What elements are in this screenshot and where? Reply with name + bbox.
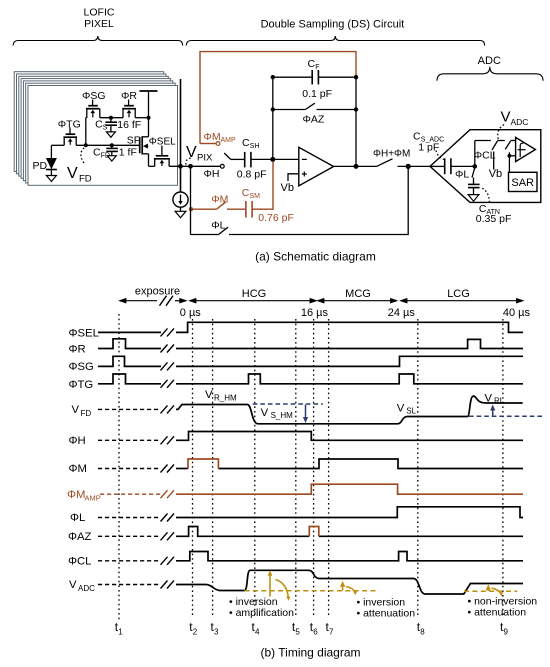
comparator input top wire bbox=[475, 140, 491, 142]
red switch PhiM wire bbox=[191, 208, 217, 210]
break PhiM_AMP red bbox=[161, 490, 175, 498]
ADC pentagon bbox=[430, 130, 541, 203]
svg-text:SM: SM bbox=[250, 193, 261, 200]
switch PhiAZ wire left bbox=[273, 109, 306, 111]
svg-text:Double Sampling (DS) Circuit: Double Sampling (DS) Circuit bbox=[261, 19, 405, 31]
svg-text:V: V bbox=[72, 404, 80, 416]
svg-text:S_HM: S_HM bbox=[271, 411, 294, 420]
switch PhiAZ lever bbox=[305, 103, 315, 109]
gridline t1 bbox=[118, 314, 120, 622]
svg-text:(b) Timing diagram: (b) Timing diagram bbox=[260, 646, 360, 660]
svg-text:V: V bbox=[501, 109, 511, 126]
svg-text:ΦH: ΦH bbox=[69, 435, 86, 447]
waveform PhiL bbox=[176, 507, 523, 518]
svg-text:V: V bbox=[205, 389, 213, 401]
CF top wire bbox=[273, 76, 312, 78]
svg-text:SH: SH bbox=[250, 143, 260, 150]
opamp output wire bbox=[334, 165, 377, 167]
dotted arc VPIX to node bbox=[186, 158, 191, 165]
svg-text:16 fF: 16 fF bbox=[117, 119, 141, 131]
ground under CS bbox=[106, 132, 115, 137]
break PhiSEL bbox=[161, 328, 175, 336]
svg-text:0.8 pF: 0.8 pF bbox=[237, 168, 267, 180]
brace ADC bbox=[437, 67, 543, 81]
svg-text:PIX: PIX bbox=[197, 152, 213, 163]
svg-text:ΦAZ: ΦAZ bbox=[68, 531, 92, 543]
break PhiM bbox=[161, 465, 175, 473]
PhiL return wire bbox=[229, 166, 408, 234]
switch PhiL lever bbox=[219, 227, 229, 234]
waveform PhiM dashed bbox=[98, 468, 161, 470]
exposure arrow bbox=[120, 299, 186, 303]
red net MAMP top wire bbox=[200, 52, 356, 144]
svg-text:ΦCL: ΦCL bbox=[68, 556, 91, 568]
junction dot CF left bbox=[271, 75, 275, 79]
svg-text:V: V bbox=[69, 579, 77, 591]
svg-text:ΦL: ΦL bbox=[455, 168, 469, 180]
break PhiTG bbox=[161, 380, 175, 388]
svg-text:FD: FD bbox=[81, 409, 92, 418]
brace LOFIC PIXEL bbox=[13, 36, 183, 46]
junction dot VPIX bbox=[188, 164, 193, 169]
svg-text:C: C bbox=[242, 137, 250, 149]
ground under CATN bbox=[468, 195, 479, 202]
wire CSH to summing node bbox=[251, 158, 273, 160]
waveform PhiSG bbox=[98, 356, 523, 366]
svg-text:ADC: ADC bbox=[478, 55, 501, 67]
junction dot output bbox=[354, 164, 359, 169]
capacitor CATN bbox=[468, 184, 480, 194]
pixel array stacked frames bbox=[14, 72, 177, 186]
waveform PhiH bbox=[176, 432, 523, 441]
svg-text:C: C bbox=[242, 187, 250, 199]
break PhiAZ bbox=[161, 532, 175, 540]
junction dot R-VDD bbox=[147, 116, 151, 120]
waveform PhiAZ red pulse bbox=[309, 527, 319, 537]
transistor R bbox=[122, 100, 136, 118]
wire dot to comparator bbox=[509, 155, 515, 157]
dotted arc CATN bbox=[481, 188, 490, 203]
blue dashed VSL level bbox=[469, 415, 544, 417]
capacitor CSADC bbox=[445, 158, 451, 174]
waveform PhiAZ dashed bbox=[98, 535, 161, 537]
svg-text:F: F bbox=[315, 64, 319, 71]
gridline t6 bbox=[313, 319, 315, 618]
svg-text:HCG: HCG bbox=[242, 288, 266, 300]
svg-text:6: 6 bbox=[313, 628, 318, 637]
svg-text:16 µs: 16 µs bbox=[301, 307, 329, 319]
svg-text:V: V bbox=[186, 144, 197, 161]
svg-text:Vb: Vb bbox=[281, 182, 294, 194]
svg-text:V: V bbox=[397, 402, 405, 414]
wire summing node to opamp bbox=[273, 158, 299, 160]
exposure break bbox=[160, 296, 174, 306]
svg-text:ΦSG: ΦSG bbox=[82, 90, 106, 102]
svg-text:PIXEL: PIXEL bbox=[84, 18, 114, 30]
stub and dot comparator lower input bbox=[508, 152, 510, 157]
wire CSADC to inner node bbox=[451, 165, 475, 167]
gridline t9 bbox=[502, 319, 504, 618]
red junction dot M tap bbox=[189, 207, 193, 211]
current source bbox=[173, 192, 188, 211]
svg-text:ΦM: ΦM bbox=[211, 194, 228, 206]
junction dot FD-CFD bbox=[110, 143, 114, 147]
SAR box bbox=[509, 172, 538, 191]
waveform VFD baseline dashed bbox=[98, 408, 161, 410]
wire to comparator bbox=[511, 140, 516, 142]
svg-text:ΦM: ΦM bbox=[204, 131, 221, 143]
svg-text:V: V bbox=[261, 407, 269, 419]
waveform PhiL dashed bbox=[98, 517, 161, 519]
waveform PhiR bbox=[98, 339, 523, 349]
break PhiH bbox=[161, 436, 175, 444]
transistor SEL bbox=[154, 146, 170, 167]
red wire MAMP stub bbox=[200, 143, 216, 145]
red switch PhiM lever bbox=[217, 202, 226, 210]
svg-text:ADC: ADC bbox=[511, 117, 529, 127]
wire R drain to VDD bbox=[135, 117, 148, 119]
svg-text:V: V bbox=[485, 392, 493, 404]
svg-text:exposure: exposure bbox=[135, 286, 180, 298]
blue arrow up VRL bbox=[490, 405, 495, 416]
svg-text:Vb: Vb bbox=[489, 168, 502, 180]
waveform PhiM_AMP red bbox=[176, 484, 523, 494]
junction dot AZ left bbox=[271, 107, 275, 111]
dotted arc VFD to FD node bbox=[81, 148, 85, 164]
wire SG-R node bbox=[100, 117, 123, 119]
svg-text:ΦM: ΦM bbox=[69, 463, 87, 475]
switch H+M lever bbox=[377, 159, 393, 167]
wire SF source to SEL bbox=[149, 165, 155, 167]
svg-text:R_HM: R_HM bbox=[214, 393, 237, 402]
svg-text:2: 2 bbox=[193, 628, 198, 637]
svg-text:FD: FD bbox=[101, 152, 110, 159]
break PhiR bbox=[161, 345, 175, 353]
svg-text:AMP: AMP bbox=[221, 137, 237, 144]
svg-text:1: 1 bbox=[118, 628, 123, 637]
waveform VADC bbox=[176, 570, 523, 594]
svg-text:C: C bbox=[308, 58, 316, 70]
break VFD bbox=[161, 405, 175, 413]
transistor TG bbox=[63, 128, 77, 146]
transistor SF bbox=[140, 136, 149, 166]
red wire CSM return bbox=[252, 162, 273, 210]
svg-text:• attenuation: • attenuation bbox=[468, 606, 527, 618]
svg-text:ΦAZ: ΦAZ bbox=[303, 113, 325, 125]
svg-text:ΦSEL: ΦSEL bbox=[69, 328, 99, 340]
op-amp U1 bbox=[299, 147, 334, 186]
svg-text:ΦH: ΦH bbox=[204, 168, 220, 180]
svg-text:ΦSG: ΦSG bbox=[69, 361, 94, 373]
junction dot ADC node bbox=[406, 164, 411, 169]
svg-text:8: 8 bbox=[420, 628, 425, 637]
orange dashed reference right bbox=[464, 590, 517, 592]
svg-text:PD: PD bbox=[33, 160, 48, 172]
orange arrow 2 bbox=[340, 581, 357, 595]
svg-text:24 µs: 24 µs bbox=[388, 307, 416, 319]
waveform PhiTG bbox=[98, 374, 523, 384]
svg-text:3: 3 bbox=[214, 628, 219, 637]
wire lever to CSH bbox=[231, 158, 244, 160]
gridline t3 bbox=[212, 319, 214, 618]
opamp minus bbox=[302, 158, 307, 160]
capacitor CSH bbox=[245, 152, 251, 168]
break PhiCL bbox=[161, 557, 175, 565]
svg-text:4: 4 bbox=[255, 628, 260, 637]
ground under CFD bbox=[107, 156, 116, 161]
feedback right vertical bbox=[355, 77, 357, 166]
column line bbox=[180, 79, 182, 192]
waveform PhiH dashed bbox=[98, 439, 161, 441]
capacitor CS bbox=[105, 118, 117, 132]
svg-text:RL: RL bbox=[494, 397, 505, 406]
svg-text:ΦTG: ΦTG bbox=[69, 379, 94, 391]
stub to CATN bbox=[473, 178, 475, 184]
switch contact MAMP circle bbox=[216, 142, 220, 146]
Vb wire opamp bbox=[288, 174, 299, 181]
junction dot FD-SG bbox=[84, 143, 88, 147]
switch PhiAZ wire right bbox=[317, 109, 357, 111]
svg-text:ADC: ADC bbox=[78, 584, 95, 593]
MCG arrow bbox=[318, 299, 397, 303]
waveform PhiAZ bbox=[176, 527, 523, 537]
junction dot CS tap bbox=[109, 116, 113, 120]
svg-text:ΦL: ΦL bbox=[211, 219, 225, 231]
wire SEL to VPIX bbox=[169, 165, 222, 167]
gridline t8 bbox=[417, 319, 419, 618]
junction dot column bbox=[178, 164, 183, 169]
svg-text:ΦR: ΦR bbox=[69, 343, 86, 355]
svg-text:• attenuation: • attenuation bbox=[357, 608, 416, 620]
orange arrow 3 bbox=[486, 584, 503, 596]
svg-text:1 fF: 1 fF bbox=[119, 146, 137, 158]
wire between switches bbox=[497, 140, 505, 142]
dotted arc CSADC bbox=[436, 151, 446, 161]
svg-text:S: S bbox=[103, 125, 108, 132]
VDD supply bar bbox=[148, 92, 150, 137]
svg-text:0.35 pF: 0.35 pF bbox=[476, 213, 512, 225]
waveform PhiSEL bbox=[98, 322, 523, 332]
blue dashed VRHM level bbox=[253, 403, 323, 405]
waveform PhiM black bbox=[176, 459, 523, 469]
break PhiSG bbox=[161, 362, 175, 370]
feedback left vertical bbox=[272, 77, 274, 159]
junction dot inner node bbox=[473, 164, 478, 169]
wire switch to ADC node bbox=[398, 165, 431, 167]
FD node wire bbox=[51, 144, 64, 146]
orange arrow 1 bbox=[268, 570, 291, 601]
svg-text:ΦR: ΦR bbox=[121, 90, 137, 102]
ground under PD bbox=[46, 176, 56, 182]
svg-text:SF: SF bbox=[127, 135, 140, 147]
waveform VFD bbox=[176, 396, 523, 424]
svg-text:ΦTG: ΦTG bbox=[58, 119, 81, 131]
switch lever H/MAMP bbox=[224, 153, 231, 159]
gridline t5 bbox=[295, 319, 297, 618]
junction dot summing node bbox=[270, 157, 275, 162]
svg-text:ΦM: ΦM bbox=[67, 489, 85, 501]
brace Double Sampling (DS) Circuit bbox=[186, 36, 484, 46]
waveform PhiCL dashed bbox=[98, 560, 161, 562]
svg-text:LOFIC: LOFIC bbox=[84, 7, 115, 19]
switch PhiL wire left bbox=[191, 234, 219, 236]
wire node to CSADC bbox=[430, 165, 445, 167]
svg-text:ΦCL: ΦCL bbox=[474, 149, 496, 161]
capacitor CF bbox=[312, 70, 318, 84]
svg-text:MCG: MCG bbox=[345, 288, 371, 300]
switch PhiCL lever bbox=[492, 141, 497, 150]
svg-text:SL: SL bbox=[406, 406, 416, 415]
svg-text:(a) Schematic diagram: (a) Schematic diagram bbox=[255, 250, 376, 264]
photodiode PD bbox=[46, 145, 57, 175]
svg-text:9: 9 bbox=[504, 628, 509, 637]
wire dot to SAR bbox=[508, 156, 510, 173]
svg-text:ΦH+ΦM: ΦH+ΦM bbox=[373, 149, 410, 160]
break PhiL bbox=[161, 514, 175, 522]
gridline t4 bbox=[254, 319, 256, 618]
svg-text:0.76 pF: 0.76 pF bbox=[258, 212, 294, 224]
svg-text:FD: FD bbox=[79, 173, 92, 184]
inner node up wire bbox=[474, 141, 476, 167]
switch PhiH circle bbox=[220, 164, 224, 168]
blue arrow down VS_HM bbox=[303, 405, 308, 424]
gridline t7 bbox=[328, 319, 330, 618]
waveform PhiM_AMP dashed red bbox=[100, 493, 161, 495]
svg-text:0 µs: 0 µs bbox=[180, 307, 202, 319]
svg-text:ΦL: ΦL bbox=[70, 512, 85, 524]
svg-text:V: V bbox=[67, 165, 78, 182]
svg-text:5: 5 bbox=[295, 628, 300, 637]
waveform PhiCL bbox=[176, 552, 523, 561]
break VADC bbox=[161, 581, 175, 589]
svg-text:AMP: AMP bbox=[85, 494, 101, 503]
capacitor CFD bbox=[106, 145, 118, 155]
dotted arc VADC to switch bbox=[498, 125, 504, 140]
switch PhiL ADC lever bbox=[472, 169, 475, 178]
red wire M to CSM bbox=[227, 208, 245, 210]
capacitor CSM red bbox=[246, 201, 252, 218]
comparator triangle bbox=[516, 137, 536, 161]
gridline t2 bbox=[192, 319, 194, 618]
svg-text:ΦSEL: ΦSEL bbox=[149, 137, 176, 148]
opamp plus bbox=[302, 172, 307, 177]
HCG arrow bbox=[190, 299, 316, 303]
LCG arrow bbox=[401, 299, 523, 303]
ground under current source bbox=[175, 211, 186, 217]
orange dashed reference left bbox=[245, 590, 377, 592]
Vb stub ADC bbox=[493, 152, 495, 170]
svg-text:0.1 pF: 0.1 pF bbox=[302, 88, 332, 100]
svg-text:SAR: SAR bbox=[511, 177, 534, 189]
comparator hysteresis glyph bbox=[518, 143, 526, 157]
svg-text:LCG: LCG bbox=[447, 288, 470, 300]
svg-text:40 µs: 40 µs bbox=[503, 307, 531, 319]
svg-text:• amplification: • amplification bbox=[229, 607, 294, 619]
waveform PhiM red pulse bbox=[188, 459, 218, 469]
node line VPIX down bbox=[190, 166, 192, 234]
svg-text:7: 7 bbox=[329, 628, 334, 637]
junction dot CF right bbox=[354, 75, 358, 79]
transistor SG bbox=[86, 100, 100, 146]
switch SAR lever bbox=[505, 141, 510, 149]
waveform VADC dashed bbox=[98, 584, 161, 586]
junction dot AZ right bbox=[354, 107, 358, 111]
